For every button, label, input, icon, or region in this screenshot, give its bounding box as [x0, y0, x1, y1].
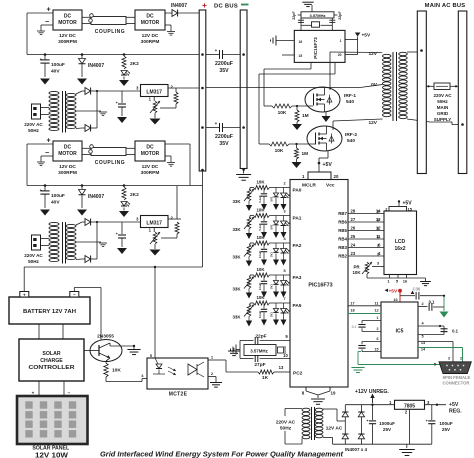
svg-text:12V DC: 12V DC [142, 164, 159, 170]
regulator LM317 B box [141, 216, 169, 228]
svg-text:220V AC: 220V AC [276, 420, 296, 426]
serial driver IC5 box [381, 302, 418, 358]
svg-text:LCD: LCD [395, 239, 406, 245]
ground PSU rail [333, 443, 432, 445]
rail battery to DC bus [24, 266, 202, 268]
wire Q3 emitter to optocoupler [105, 377, 107, 382]
input channel PA5 [232, 295, 301, 327]
mosfet Q1 IRF-1 540 [305, 87, 340, 112]
svg-text:50Hz: 50Hz [280, 426, 292, 432]
svg-text:5V1: 5V1 [270, 252, 274, 257]
ground M1B [41, 155, 53, 157]
solar charge controller box [19, 339, 84, 381]
svg-text:+5V: +5V [362, 33, 371, 39]
svg-text:MAIN AC BUS: MAIN AC BUS [425, 3, 466, 9]
node T3 to AC bus junctions [420, 49, 423, 52]
capacitor filter A [121, 91, 123, 103]
capacitor 100uF 25V [431, 405, 433, 420]
wire DC rail to optocoupler pin5 [154, 266, 156, 268]
svg-text:+5V: +5V [323, 162, 333, 168]
svg-text:DC: DC [146, 14, 154, 20]
DC bus + bar [199, 10, 206, 171]
diode D1 IN4007 [172, 10, 178, 17]
ground below 100uF B [40, 210, 50, 216]
svg-text:33K: 33K [232, 255, 241, 260]
svg-text:12V 10W: 12V 10W [35, 451, 68, 458]
wire T3 secondary bottom to AC bus [407, 119, 458, 125]
svg-text:CONNECTOR: CONNECTOR [443, 381, 470, 386]
wire pwm2 from U2 [334, 63, 336, 74]
microcontroller U2 PIC16F73 (pwm) box [294, 30, 345, 62]
svg-text:540: 540 [346, 99, 354, 105]
transformer TA primary [49, 91, 59, 94]
ground M1A [41, 24, 53, 26]
svg-text:13: 13 [376, 217, 381, 222]
ground LCD [425, 278, 427, 281]
svg-text:2: 2 [421, 302, 423, 306]
pin bracket top of U1 [308, 172, 331, 180]
svg-text:12V: 12V [368, 120, 377, 126]
bridge rectifier IN4007 x 4 [344, 405, 346, 445]
node battery - terminal [70, 292, 79, 298]
svg-text:RB7: RB7 [338, 211, 347, 216]
svg-text:+12V UNREG.: +12V UNREG. [355, 389, 389, 395]
wire optocoupler pin2 to ground [208, 376, 216, 378]
svg-text:RB4: RB4 [338, 237, 347, 242]
svg-text:BATTERY 12V 7AH: BATTERY 12V 7AH [23, 309, 76, 315]
svg-text:50Hz: 50Hz [28, 128, 39, 133]
svg-text:+: + [215, 121, 218, 126]
svg-text:PIC16F73: PIC16F73 [308, 283, 332, 289]
svg-text:DC: DC [146, 145, 154, 151]
svg-text:22pF: 22pF [255, 334, 266, 340]
svg-text:5: 5 [434, 363, 436, 367]
transformer T3 primary (inverter side) [382, 54, 391, 57]
svg-text:0.1: 0.1 [352, 325, 357, 329]
svg-text:3.57MHz: 3.57MHz [309, 13, 325, 18]
wire T3 secondary top to AC bus [407, 51, 417, 53]
ground below 1M gate2 [296, 159, 298, 162]
wire LCD pins 1 5 16 to ground [389, 275, 391, 279]
wire M1A + to left rail [27, 12, 53, 14]
ground M2A [165, 24, 171, 26]
svg-text:220V AC: 220V AC [24, 122, 43, 127]
svg-text:0.1uF: 0.1uF [258, 251, 262, 259]
svg-text:2N3055: 2N3055 [97, 334, 114, 340]
pin bracket top of LCD [389, 207, 407, 212]
svg-text:DC BUS: DC BUS [214, 4, 238, 10]
svg-text:0.1uF: 0.1uF [258, 311, 262, 319]
coupling shaft B [91, 148, 126, 156]
svg-text:DC: DC [64, 14, 72, 20]
ground below IN4007 A [77, 79, 87, 85]
wire battery - to 2N3055 [73, 288, 75, 292]
svg-text:+: + [46, 7, 50, 14]
diode rectifier bottom A [76, 127, 82, 130]
wire U2 pin15 stub [282, 54, 294, 56]
transformer TB secondary [66, 224, 76, 227]
center tap ground B [76, 241, 101, 243]
svg-text:300RPM: 300RPM [141, 39, 160, 45]
ground below filter cap A [117, 117, 127, 123]
svg-text:35V: 35V [219, 141, 229, 147]
svg-text:33K: 33K [232, 287, 241, 292]
svg-text:13: 13 [279, 365, 284, 370]
svg-text:40V: 40V [51, 200, 60, 206]
capacitor charge pump 1 [362, 320, 381, 322]
led B [121, 202, 127, 207]
battery BT1 12V 7AH box [9, 297, 90, 324]
svg-text:9PIN FEMALE: 9PIN FEMALE [443, 375, 471, 380]
ground below 100uF A [40, 79, 50, 85]
wire DC bus + extension down [201, 169, 204, 172]
wire LM317 B output riser [168, 218, 181, 220]
svg-text:PR: PR [353, 265, 360, 270]
svg-text:2K2: 2K2 [130, 192, 139, 198]
wire rectifier join B [96, 222, 98, 259]
svg-text:PA1: PA1 [293, 216, 302, 222]
svg-text:MCT2E: MCT2E [169, 392, 188, 398]
capacitor 1000uF 25V [372, 405, 374, 420]
svg-text:40V: 40V [51, 69, 60, 75]
svg-text:7805: 7805 [404, 403, 415, 409]
pin 19 stub U1 [329, 387, 331, 391]
svg-text:50Hz: 50Hz [28, 259, 39, 264]
svg-text:CHARGE: CHARGE [40, 358, 63, 364]
AC bus right bar [458, 11, 467, 174]
svg-text:PA0: PA0 [293, 188, 302, 194]
wire motor2A output to DC bus [165, 12, 199, 14]
svg-text:20: 20 [338, 53, 342, 57]
ground below DC bus - bar [242, 168, 245, 171]
ground below 1M gate1 [296, 122, 298, 124]
svg-text:REG.: REG. [449, 409, 462, 415]
svg-text:PC2: PC2 [293, 371, 303, 377]
svg-text:3.57MHz: 3.57MHz [250, 349, 268, 354]
svg-text:+: + [46, 138, 50, 145]
transformer T3 secondary [399, 52, 408, 55]
svg-text:2: 2 [377, 327, 379, 331]
dc-motor M2A box [135, 10, 165, 30]
diode rectifier bottom B [76, 258, 82, 261]
svg-text:220V AC: 220V AC [24, 253, 43, 258]
resistor 1M gate2 [295, 143, 297, 145]
transformer TB core [62, 222, 64, 264]
wire rectifier join A [96, 91, 98, 128]
node battery + terminal [20, 292, 29, 298]
ground C36 (green) [443, 296, 445, 311]
resistor 10K emitter [106, 358, 110, 361]
svg-text:12V DC: 12V DC [59, 33, 76, 39]
svg-text:15: 15 [299, 54, 303, 58]
svg-text:COUPLING: COUPLING [95, 160, 125, 166]
crystal X1 3.57MHz [244, 345, 276, 356]
ground below trimpot B [154, 244, 156, 249]
svg-text:2200uF: 2200uF [215, 134, 233, 140]
coupling shaft A [91, 17, 126, 25]
svg-text:IRF-1: IRF-1 [344, 93, 356, 99]
wire Q2 drain to transformer [332, 121, 334, 130]
svg-text:1: 1 [340, 39, 342, 43]
resistor 1M gate1 [296, 105, 298, 107]
svg-text:12V DC: 12V DC [142, 33, 159, 39]
input channel PA2 [232, 235, 301, 267]
svg-text:C36: C36 [413, 287, 421, 292]
svg-text:GRID: GRID [437, 111, 449, 116]
transformer T3 core [392, 52, 394, 121]
capacitor 27pF lower [240, 358, 254, 360]
wire rail B riser from M2B [165, 143, 190, 145]
svg-text:20: 20 [334, 174, 339, 179]
svg-text:33K: 33K [232, 199, 241, 204]
svg-text:12V DC: 12V DC [59, 164, 76, 170]
svg-text:IRF-2: IRF-2 [345, 132, 357, 138]
svg-text:300RPM: 300RPM [141, 170, 160, 176]
svg-text:10: 10 [283, 353, 288, 358]
svg-text:MOTOR: MOTOR [58, 20, 77, 26]
svg-text:10K: 10K [256, 267, 265, 272]
resistor 2K2 B [123, 184, 126, 187]
diode IN4007 A shunt [81, 53, 84, 56]
dc-motor M1B box [53, 141, 82, 161]
svg-text:5V1: 5V1 [270, 312, 274, 317]
svg-text:27: 27 [351, 217, 356, 222]
svg-text:SUPPLY: SUPPLY [434, 117, 452, 122]
svg-text:DC: DC [64, 145, 72, 151]
wire DC+ to transformer center tap [206, 85, 383, 88]
svg-text:19: 19 [331, 391, 336, 396]
svg-text:22pF: 22pF [292, 11, 296, 20]
svg-text:MOTOR: MOTOR [141, 20, 160, 26]
svg-text:220V AC: 220V AC [433, 93, 452, 98]
svg-text:+5V: +5V [389, 288, 398, 294]
ground IC5 (green) [351, 367, 364, 369]
wire RB2 to LCD [338, 251, 384, 259]
dc-motor M2B box [135, 141, 165, 161]
svg-text:5V1: 5V1 [270, 196, 274, 201]
svg-text:300RPM: 300RPM [58, 39, 77, 45]
svg-text:15: 15 [375, 348, 379, 352]
svg-text:MAIN: MAIN [437, 105, 449, 110]
trimpot LM317 B [153, 232, 157, 244]
svg-text:IN4007: IN4007 [171, 3, 187, 9]
svg-text:LM317: LM317 [146, 221, 162, 227]
power +5V for U2 [355, 33, 361, 37]
plug 220V AC A [32, 104, 41, 119]
center tap ground A [76, 110, 101, 112]
svg-text:16: 16 [393, 298, 397, 302]
svg-text:300RPM: 300RPM [58, 170, 77, 176]
ground below filter cap B [117, 248, 127, 254]
svg-text:IN4007: IN4007 [88, 194, 104, 200]
svg-text:10K: 10K [278, 110, 287, 116]
svg-text:100uF: 100uF [51, 193, 65, 199]
label +5V REG output [436, 404, 438, 406]
svg-text:25: 25 [351, 234, 356, 239]
svg-text:100uF: 100uF [51, 62, 65, 68]
svg-text:33K: 33K [232, 227, 241, 232]
svg-text:CONTROLLER: CONTROLLER [29, 365, 75, 371]
wire controller to panel [38, 381, 40, 396]
ground top of oscillator [302, 1, 313, 3]
svg-text:18: 18 [350, 309, 354, 313]
svg-text:10K: 10K [256, 180, 265, 185]
svg-text:26: 26 [351, 226, 356, 231]
svg-text:−: − [73, 292, 76, 297]
wire RB3 to LCD [338, 243, 384, 251]
svg-text:10K: 10K [256, 208, 265, 213]
svg-text:5: 5 [421, 335, 423, 339]
svg-text:33K: 33K [232, 315, 241, 320]
wire IC5 ground (green) [358, 351, 361, 353]
wire optocoupler pin1 to 1K [208, 359, 213, 361]
wire LM317 A output to DC bus [168, 87, 199, 89]
led A [121, 71, 127, 76]
ground stub right of optocoupler [228, 350, 240, 352]
ground below led B [119, 211, 129, 217]
pin 8 stub U1 [305, 387, 307, 391]
capacitor charge pump 2 [362, 341, 381, 343]
resistor 10K gate1 [264, 105, 272, 107]
svg-text:12V: 12V [368, 51, 377, 57]
node DC BUS - label [241, 4, 249, 6]
svg-text:14: 14 [376, 209, 381, 214]
svg-text:11: 11 [374, 302, 378, 306]
svg-text:17: 17 [350, 302, 354, 306]
svg-text:PA5: PA5 [293, 303, 302, 309]
svg-text:2K2: 2K2 [130, 61, 139, 67]
svg-text:22pF: 22pF [338, 11, 342, 20]
capacitor 100uF 40V A [44, 53, 47, 56]
wire LM317 A adj [153, 97, 155, 102]
crystal element [301, 24, 312, 26]
regulator LM317 A box [141, 85, 169, 97]
svg-text:LM317: LM317 [146, 90, 162, 96]
svg-text:12V AC: 12V AC [326, 426, 343, 432]
svg-text:MOTOR: MOTOR [58, 151, 77, 157]
svg-text:2: 2 [460, 357, 462, 361]
ground below trimpot A [154, 113, 156, 118]
svg-text:SOLAR: SOLAR [42, 351, 60, 357]
svg-text:0.1: 0.1 [452, 329, 458, 334]
wire T4 primary loop [285, 408, 302, 410]
svg-text:12: 12 [376, 226, 381, 231]
wire battery + to rail [23, 267, 25, 292]
plug 220V AC B [32, 235, 41, 250]
svg-text:RB3: RB3 [338, 245, 347, 250]
capacitor 2200uF 35V lower [206, 127, 219, 129]
svg-text:100uF: 100uF [439, 421, 452, 426]
resistor LM317 B feedback [175, 222, 179, 234]
svg-text:2200uF: 2200uF [215, 61, 233, 67]
capacitor 2200uF 35V upper [206, 54, 219, 56]
fuse main grid [426, 85, 434, 87]
regulator 7805 box [395, 400, 425, 409]
optocoupler internals [155, 358, 158, 364]
resistor LM317 A feedback [175, 88, 177, 92]
svg-text:10K: 10K [112, 368, 121, 374]
optocoupler U3 MCT2E box [147, 358, 208, 389]
capacitor 0.1 at IC5 pin2 [418, 306, 428, 308]
wire LM317 B adj [153, 228, 155, 233]
capacitor filter B [121, 222, 123, 234]
input channel PA1 [232, 208, 301, 240]
resistor 10K gate2 [259, 143, 269, 145]
connector J1 9-pin female [439, 362, 471, 374]
svg-text:16x2: 16x2 [394, 246, 405, 252]
svg-text:0.1uF: 0.1uF [258, 195, 262, 203]
svg-text:3: 3 [448, 357, 450, 361]
svg-text:28: 28 [351, 209, 356, 214]
svg-text:IN4007: IN4007 [88, 63, 104, 69]
svg-text:25V: 25V [442, 427, 451, 432]
svg-text:1: 1 [377, 316, 379, 320]
wire Q1 drain to transformer [329, 52, 331, 90]
wire RB7 to LCD [338, 209, 384, 217]
wire Q3 collector to ground [110, 345, 134, 347]
svg-text:IN4007 x 4: IN4007 x 4 [345, 447, 368, 452]
dc-motor M1A box [53, 10, 82, 30]
ground Q1 source [325, 112, 327, 116]
wire 7805 gnd [409, 409, 411, 444]
svg-text:1K: 1K [262, 375, 269, 381]
wire T4 secondary to bridge [323, 408, 337, 410]
svg-text:16: 16 [403, 279, 408, 284]
DC bus - bar [240, 10, 247, 169]
svg-text:24: 24 [351, 243, 356, 248]
svg-text:35V: 35V [219, 68, 229, 74]
svg-text:25V: 25V [383, 427, 392, 432]
display LCD 16x2 box [384, 211, 417, 275]
svg-text:3: 3 [283, 210, 285, 214]
label +12V UNREG with arrow [372, 396, 374, 403]
power +5V for LCD [398, 200, 400, 202]
svg-text:23: 23 [351, 251, 356, 256]
svg-text:12: 12 [374, 309, 378, 313]
svg-text:MOTOR: MOTOR [141, 151, 160, 157]
input channel PA3 [232, 267, 301, 299]
svg-text:540: 540 [347, 138, 355, 144]
ground below led A [119, 80, 129, 86]
resistor 1K [258, 370, 274, 374]
svg-text:RB2: RB2 [338, 254, 347, 259]
svg-text:27pF: 27pF [254, 362, 265, 368]
svg-text:PIC16F73: PIC16F73 [313, 37, 319, 59]
ground below U1 [306, 391, 318, 395]
rail +12V unregulated [345, 404, 439, 406]
svg-text:0.1uF: 0.1uF [258, 223, 262, 231]
svg-text:5V1: 5V1 [270, 224, 274, 229]
svg-text:Grid Interfaced Wind Energy Sy: Grid Interfaced Wind Energy System For P… [100, 452, 344, 458]
transformer TB primary [49, 222, 59, 225]
input channel PA0 [232, 180, 301, 212]
resistor 2K2 A [123, 53, 126, 56]
mosfet Q2 IRF-2 540 [307, 126, 342, 151]
svg-text:50Hz: 50Hz [437, 99, 448, 104]
wire crystal left join [239, 341, 241, 359]
svg-text:RB5: RB5 [338, 228, 347, 233]
svg-text:IC5: IC5 [396, 329, 404, 335]
rail B horizontal [27, 185, 203, 187]
svg-text:6: 6 [377, 337, 379, 341]
crystal X2 3.57MHz box [301, 12, 334, 18]
svg-text:+: + [202, 0, 207, 10]
wire M1B + to left rail [27, 143, 53, 145]
svg-text:10K: 10K [256, 295, 265, 300]
svg-text:+: + [23, 292, 26, 297]
svg-text:1000uF: 1000uF [379, 421, 395, 426]
wire Q2 source to +5V node [327, 151, 329, 158]
